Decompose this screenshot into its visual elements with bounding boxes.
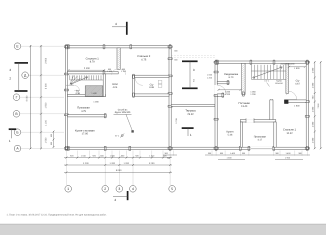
log joint right building left wall y62.2 — [214, 61, 218, 63]
svg-text:1 090: 1 090 — [311, 121, 314, 127]
svg-text:1 500: 1 500 — [44, 102, 47, 108]
section marker 4 bottom bar — [127, 191, 129, 200]
svg-text:1 010: 1 010 — [149, 154, 155, 157]
log joint bottom wall x170.1 — [169, 146, 171, 150]
wall left of bathroom — [132, 75, 134, 96]
log joint right building right wall y101.6 — [305, 101, 309, 103]
axis circle Д — [22, 72, 29, 79]
log joint right building top wall x216.1 — [215, 60, 217, 64]
stove black square — [284, 100, 288, 104]
log joint right building right wall y62.2 — [305, 61, 309, 63]
axis circle 4 — [130, 186, 137, 193]
log joint right building right wall y148.3 — [305, 147, 309, 149]
post callout underline — [114, 113, 132, 115]
kitchen right wall — [240, 122, 242, 147]
bedroom1 width dim line — [68, 69, 106, 71]
bottom gray bar — [0, 224, 326, 235]
svg-text:2 000: 2 000 — [44, 83, 47, 89]
axis А extension line — [21, 148, 64, 150]
section 1 right stem — [187, 128, 189, 136]
vestibule wall — [217, 94, 224, 96]
svg-text:1 200: 1 200 — [123, 162, 129, 165]
log joint right wall y106.3 — [168, 105, 172, 107]
svg-text:1 400: 1 400 — [285, 152, 291, 155]
wall right of corridor — [270, 100, 273, 120]
closet top edge line — [66, 84, 74, 86]
svg-text:2: 2 — [9, 77, 11, 81]
stairs right building treads — [251, 65, 286, 80]
axis circle Б — [14, 129, 21, 136]
section marker 2-2 right bar — [182, 87, 198, 89]
svg-text:2: 2 — [193, 79, 195, 83]
wc door arc — [289, 91, 297, 99]
log joint right building top wall x217.4 — [217, 60, 219, 64]
bedroom1 door arc — [112, 69, 118, 75]
axis circle Е — [14, 43, 21, 50]
entry door jambs — [246, 118, 254, 122]
right dim chain line — [314, 61, 316, 149]
stairs left building arrow — [71, 77, 88, 85]
log joint bottom wall x129.8 — [129, 146, 131, 150]
interior wall under bedroom 1 — [68, 72, 119, 74]
log joint right building bottom wall x216.1 — [215, 146, 217, 150]
axis circle Г — [13, 94, 20, 101]
svg-text:10.42: 10.42 — [286, 132, 293, 135]
bottom dim line terrace — [163, 154, 310, 156]
svg-text:Г: Г — [16, 95, 18, 99]
right dim chain total — [320, 61, 322, 149]
left building right wall — [169, 46, 171, 150]
section marker 2-2 left bar — [15, 90, 28, 92]
stairs right building arrow — [253, 67, 282, 78]
log joint top wall x170.1 — [169, 45, 171, 49]
dressing room wall — [217, 81, 229, 83]
cap on bathroom wall bottom — [133, 93, 135, 97]
svg-text:6.75: 6.75 — [141, 58, 146, 61]
svg-text:1 480: 1 480 — [93, 100, 99, 103]
corner mini dim chain line — [53, 131, 55, 149]
svg-text:1 900: 1 900 — [285, 156, 291, 159]
section 4 bottom arrow line — [113, 195, 128, 197]
log joint right wall y93.5 — [168, 93, 172, 95]
log joint right building bottom wall x240.3 — [239, 146, 241, 150]
log joint right wall y148.3 — [168, 147, 172, 149]
svg-text:5: 5 — [171, 187, 173, 191]
svg-text:3: 3 — [118, 187, 120, 191]
log joint right building left wall y148.3 — [214, 147, 218, 149]
section marker 4 top bar — [126, 22, 128, 35]
log joint right building top wall x274.0 — [273, 60, 275, 64]
bottom dim chain row3 total — [64, 171, 172, 173]
partition dressing hatch — [242, 64, 245, 96]
svg-text:1 200: 1 200 — [207, 77, 213, 80]
entry door arc right building — [217, 85, 226, 94]
axis Е extension line — [21, 45, 64, 47]
stove blob leader — [267, 83, 270, 87]
svg-text:1: 1 — [9, 139, 11, 143]
left dimension chain line (segments) — [40, 45, 42, 150]
axis Д extension line — [29, 74, 65, 76]
entry right wall — [274, 122, 276, 147]
svg-text:29.92: 29.92 — [187, 113, 194, 116]
entry door opening gap — [246, 119, 254, 122]
cap vestibule wall — [222, 93, 224, 97]
partition bedroom1/bedroom2 — [117, 48, 120, 69]
log joint left wall y90.0 — [64, 89, 68, 91]
section 4 top arrow line — [112, 26, 127, 28]
log joint right building top wall x250.9 — [250, 60, 252, 64]
log joint right wall y58.7 — [168, 58, 172, 60]
svg-text:4: 4 — [132, 187, 134, 191]
axis circle 2 — [102, 186, 109, 193]
svg-text:9 000: 9 000 — [26, 95, 29, 101]
log joint right building bottom wall x307.3 — [306, 146, 308, 150]
joint on bedroom1 wall — [103, 71, 105, 75]
interior wall under bedroom 2 — [132, 75, 169, 77]
bottom dim line right row2 — [218, 158, 303, 160]
log joint top wall x130.8 — [130, 45, 132, 49]
log joint left wall y74.0 — [64, 73, 68, 75]
log joint left wall y148.3 — [64, 147, 68, 149]
axis В extension line — [20, 113, 64, 115]
log joint right building right wall y116.3 — [305, 115, 309, 117]
wall under wc — [285, 100, 307, 102]
left building left wall — [65, 46, 67, 150]
svg-text:3: 3 — [193, 68, 195, 72]
log joint right wall y46.7 — [168, 46, 172, 48]
svg-text:1 900: 1 900 — [294, 105, 300, 108]
svg-text:1 730: 1 730 — [175, 118, 178, 124]
bedroom2 door arc — [120, 69, 126, 75]
svg-text:9 000: 9 000 — [116, 169, 122, 172]
log joint top wall x104.0 — [103, 45, 105, 49]
svg-text:1. План 1-го этажа. 10.06.2017: 1. План 1-го этажа. 10.06.2017 12:31. Пр… — [7, 214, 108, 217]
section marker 3-3 right bar — [182, 60, 198, 62]
bottom extension lines right part — [174, 151, 308, 156]
svg-text:Столб из: Столб из — [118, 108, 128, 111]
axis circle А — [14, 145, 21, 152]
log joint right building bottom wall x248.9 — [248, 146, 250, 150]
axis circle В — [13, 111, 20, 118]
svg-text:17.95: 17.95 — [82, 133, 89, 136]
svg-text:4.05: 4.05 — [113, 86, 118, 89]
svg-text:3 200: 3 200 — [83, 162, 89, 165]
bottom extension lines left building — [66, 151, 170, 186]
porch sill line — [251, 147, 273, 149]
axis circle 1 — [65, 186, 72, 193]
log joint bottom wall x105.2 — [104, 146, 106, 150]
porch opening bottom wall — [251, 147, 273, 150]
right building right wall — [306, 61, 308, 150]
log joint right building top wall x307.3 — [306, 60, 308, 64]
svg-text:4: 4 — [115, 22, 117, 26]
svg-text:3: 3 — [9, 68, 11, 72]
svg-text:4.17: 4.17 — [257, 139, 262, 142]
svg-text:1 060: 1 060 — [207, 74, 213, 77]
junction cross interior — [271, 99, 273, 103]
svg-text:4: 4 — [114, 198, 116, 202]
partition dressing/stairs — [242, 63, 245, 94]
timber post — [131, 130, 133, 132]
svg-text:1 480: 1 480 — [91, 92, 97, 95]
svg-text:1 200: 1 200 — [250, 93, 256, 96]
dashed extension between buildings 2 — [171, 56, 215, 58]
svg-text:1 500: 1 500 — [44, 137, 47, 143]
bathroom fixtures — [158, 80, 162, 87]
dashed extension between buildings 1 — [171, 55, 215, 57]
bottom dim chain row1 — [64, 157, 172, 159]
svg-text:1 010: 1 010 — [81, 154, 87, 157]
shower cabin — [85, 86, 103, 97]
cap partition dressing bottom — [243, 92, 245, 96]
log joint right wall y75.9 — [168, 75, 172, 77]
wall under entry hall — [68, 115, 107, 117]
svg-text:3.38: 3.38 — [149, 86, 154, 89]
wall right of shower — [103, 74, 105, 97]
svg-text:8.79: 8.79 — [90, 61, 95, 64]
svg-text:бруса 100х100: бруса 100х100 — [115, 111, 131, 114]
stairs left building treads — [70, 75, 103, 80]
log joint right building left wall y119.2 — [214, 118, 218, 120]
svg-text:4.67: 4.67 — [295, 83, 300, 86]
svg-text:1 100: 1 100 — [44, 119, 47, 125]
svg-text:300: 300 — [174, 50, 177, 53]
log joint bottom wall x66.4 — [66, 146, 68, 150]
svg-text:300: 300 — [174, 59, 177, 62]
svg-text:2: 2 — [104, 187, 106, 191]
section 1 left stem — [10, 129, 12, 138]
log joint left wall y114.8 — [64, 114, 68, 116]
log joint left wall y46.7 — [64, 46, 68, 48]
stairs right building landing line — [251, 70, 286, 72]
closet wall under stairs — [68, 94, 106, 96]
partition stairs/wc — [286, 63, 289, 93]
svg-text:1: 1 — [190, 133, 192, 137]
partition stairs/wc hatch — [286, 64, 289, 95]
log joint bottom wall x68.3 — [67, 146, 69, 150]
svg-text:полок 600х2200: полок 600х2200 — [281, 63, 295, 66]
svg-text:6.70: 6.70 — [229, 76, 234, 79]
svg-text:1 200: 1 200 — [225, 93, 231, 96]
svg-text:2 400: 2 400 — [84, 67, 90, 70]
svg-text:1 400: 1 400 — [230, 152, 236, 155]
shower cabin hatch — [85, 86, 103, 97]
svg-text:1 090: 1 090 — [311, 67, 314, 73]
svg-text:7 900: 7 900 — [317, 103, 320, 109]
bottom dim chain row2 — [64, 164, 172, 166]
svg-text:4.38: 4.38 — [75, 92, 80, 95]
closet door arc — [74, 85, 79, 90]
terrace front rail — [171, 105, 215, 107]
bottom gray bar top edge — [0, 223, 326, 225]
section marker 1 left bar — [9, 128, 17, 130]
svg-text:2 600: 2 600 — [44, 57, 47, 63]
section 3/2 right stem — [189, 61, 191, 88]
svg-text:4.75: 4.75 — [81, 110, 86, 113]
log joint top wall x68.3 — [67, 45, 69, 49]
svg-text:1 090: 1 090 — [311, 106, 314, 112]
partition hatch — [117, 49, 120, 70]
svg-text:1 090: 1 090 — [311, 137, 314, 143]
svg-text:5.46: 5.46 — [228, 134, 233, 137]
log joint top wall x66.4 — [66, 45, 68, 49]
svg-text:13.40: 13.40 — [241, 105, 248, 108]
log joint right building left wall y95.5 — [214, 95, 218, 97]
axis circle 5 — [169, 186, 176, 193]
right building top wall — [215, 61, 309, 63]
wall living/entry — [240, 120, 275, 122]
bathroom door arc — [135, 78, 143, 86]
section marker 1 right bar — [182, 127, 194, 129]
axis Б extension line — [21, 131, 64, 133]
svg-text:1: 1 — [67, 187, 69, 191]
left wall door opening gap — [215, 85, 218, 94]
cap on entry hall wall — [104, 114, 106, 118]
wall under bathroom — [135, 94, 169, 96]
svg-text:150х150: 150х150 — [275, 82, 284, 85]
log joint right building left wall y72.0 — [214, 71, 218, 73]
svg-text:1 300: 1 300 — [226, 156, 232, 159]
svg-text:1 090: 1 090 — [311, 82, 314, 88]
cap dressing room wall — [227, 81, 229, 85]
stairs winder steps — [70, 76, 81, 85]
right building left wall — [215, 61, 217, 150]
svg-text:3 200: 3 200 — [149, 162, 155, 165]
left building bottom wall / terrace / right building bottom wall — [65, 147, 308, 149]
cap on bathroom wall top — [133, 74, 135, 78]
log joint right building bottom wall x273.8 — [273, 146, 275, 150]
svg-text:1 200: 1 200 — [110, 162, 116, 165]
dressing room dim line — [218, 89, 242, 91]
section 3/2 left stem — [18, 63, 20, 91]
axis circle 3 — [116, 186, 123, 193]
svg-text:1 600: 1 600 — [110, 154, 116, 157]
axis Г extension line — [20, 96, 64, 98]
post mark Ст-1 — [120, 134, 124, 138]
wc dim line — [288, 66, 306, 68]
svg-text:1 900: 1 900 — [294, 67, 300, 70]
post callout leader — [126, 115, 132, 131]
section marker 3-3 left bar — [15, 62, 29, 64]
left dimension chain line (total 9000) — [30, 45, 32, 150]
left building top wall — [65, 46, 171, 48]
